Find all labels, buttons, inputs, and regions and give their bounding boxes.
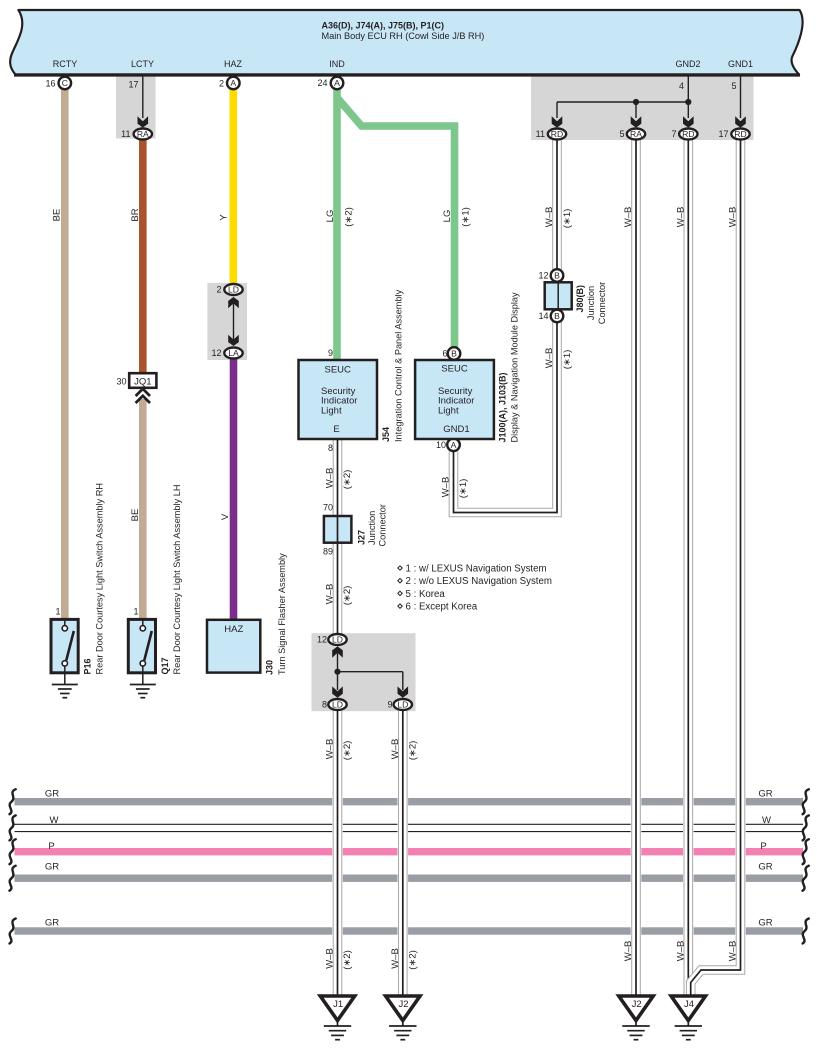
component P16 Rear Door Courtesy Light Switch Assembly RH xyxy=(51,619,78,684)
svg-text:Light: Light xyxy=(438,405,459,416)
wire W-B 5 RA to ground J2 xyxy=(631,140,641,996)
svg-text:GND2: GND2 xyxy=(675,59,700,69)
connector circle C pin 16 xyxy=(59,77,72,90)
svg-text:W–B: W–B xyxy=(390,948,401,969)
svg-text:B: B xyxy=(554,271,560,281)
svg-text:W: W xyxy=(762,815,771,826)
svg-text:1: 1 xyxy=(55,607,60,617)
ground P16 xyxy=(52,685,78,698)
svg-text:Y: Y xyxy=(219,214,230,221)
harness band GR 1 xyxy=(15,798,804,805)
svg-text:(∗2): (∗2) xyxy=(342,470,353,490)
svg-text:Connector: Connector xyxy=(597,282,607,324)
svg-text:SEUC: SEUC xyxy=(441,364,468,375)
connector oval LD pin 9 xyxy=(394,699,412,710)
svg-text:12: 12 xyxy=(538,271,548,281)
svg-text:6: 6 xyxy=(442,349,447,359)
svg-text:Turn Signal Flasher Assembly: Turn Signal Flasher Assembly xyxy=(277,553,287,675)
component J27 junction connector xyxy=(324,516,352,543)
label J54 xyxy=(381,427,391,442)
svg-text:11: 11 xyxy=(121,129,130,139)
svg-text:RCTY: RCTY xyxy=(53,59,78,69)
connector oval RD pin 17 xyxy=(731,129,749,140)
wire W-B 11 RD through J80 down and left up to J100 pin 10 xyxy=(454,140,558,513)
svg-text:B: B xyxy=(451,349,457,359)
svg-text:GR: GR xyxy=(758,861,772,872)
svg-text:5: 5 xyxy=(731,81,736,91)
wire BE beige JQ1 to Q17 xyxy=(139,399,147,620)
svg-text:J1: J1 xyxy=(333,999,343,1010)
wire Y yellow HAZ to 2 LD xyxy=(230,90,238,284)
ground triangle J2 left xyxy=(386,996,420,1040)
wire stub to 7 RD xyxy=(687,102,689,118)
connector oval LD pin 12 splice xyxy=(328,634,346,645)
wire BE beige RCTY to P16 xyxy=(61,90,69,621)
svg-text:GR: GR xyxy=(45,788,59,799)
svg-text:Light: Light xyxy=(321,405,342,416)
svg-text:14: 14 xyxy=(538,311,548,321)
svg-text:BE: BE xyxy=(52,209,63,222)
svg-text:Rear Door Courtesy Light Switc: Rear Door Courtesy Light Switch Assembly… xyxy=(172,485,182,675)
svg-text:P16: P16 xyxy=(83,658,93,674)
shade box LCTY relay block xyxy=(116,75,156,139)
svg-text:(∗1): (∗1) xyxy=(562,209,573,229)
connector circle A pin 24 IND xyxy=(331,77,344,90)
wire label W-B bottom J4 xyxy=(675,941,686,962)
svg-text:2: 2 xyxy=(219,78,224,88)
svg-text:A: A xyxy=(451,440,457,450)
connector circle A pin 10 J100 xyxy=(447,439,460,452)
svg-text:2: 2 xyxy=(216,285,221,295)
svg-text:(∗1): (∗1) xyxy=(460,207,471,227)
wire label W-B 17RD xyxy=(728,207,739,228)
svg-text:J2: J2 xyxy=(398,999,408,1010)
wire label BE 2 xyxy=(130,509,141,522)
svg-text:W–B: W–B xyxy=(623,941,634,962)
svg-text:W–B: W–B xyxy=(544,348,555,369)
wire label W-B 7RD xyxy=(675,207,686,228)
wire W-B 17 RD joining ground J4 xyxy=(691,140,741,996)
svg-text:HAZ: HAZ xyxy=(224,59,243,69)
wire GND1 lead xyxy=(740,76,742,118)
svg-text:RA: RA xyxy=(137,129,149,139)
svg-text:8: 8 xyxy=(328,443,333,453)
svg-text:J100(A), J103(B): J100(A), J103(B) xyxy=(498,372,508,442)
svg-text:16: 16 xyxy=(45,78,55,88)
svg-text:GR: GR xyxy=(45,917,59,928)
svg-text:Main Body ECU RH (Cowl Side J/: Main Body ECU RH (Cowl Side J/B RH) xyxy=(322,31,485,41)
shade box LD splice block xyxy=(312,633,416,711)
svg-text:RD: RD xyxy=(682,129,694,139)
wire label W-B 11RD (*1) xyxy=(544,207,555,228)
svg-text:(∗1): (∗1) xyxy=(562,350,573,370)
wire W-B 9 LD to ground J2 left xyxy=(398,711,408,996)
wire label W-B bottom J2 left (*2) xyxy=(390,948,401,969)
svg-text:4: 4 xyxy=(679,81,684,91)
wire label W-B bottom 17RD xyxy=(728,941,739,962)
svg-text:E: E xyxy=(333,424,339,435)
svg-text:Q17: Q17 xyxy=(160,657,170,674)
svg-text:BR: BR xyxy=(130,208,141,221)
svg-text:W–B: W–B xyxy=(325,468,336,489)
wire stub to 5 RA xyxy=(635,102,637,118)
svg-text:Junction: Junction xyxy=(586,286,596,320)
svg-text:J30: J30 xyxy=(265,660,275,675)
svg-text:10: 10 xyxy=(436,440,446,450)
svg-text:(∗2): (∗2) xyxy=(342,950,353,970)
label J100(A), J103(B) xyxy=(498,372,508,442)
wire LG green branch IND to J100 pin 6 xyxy=(337,98,455,348)
svg-text:LG: LG xyxy=(325,210,336,223)
component J80(B) junction connector xyxy=(545,282,572,309)
component J100(A), J103(B) Display & Navigation Module Display xyxy=(415,360,494,439)
wire BR brown LCTY to JQ1 xyxy=(139,140,147,374)
svg-text:5 : Korea: 5 : Korea xyxy=(406,589,446,600)
wire label W-B below J27 (*2) xyxy=(325,584,336,605)
svg-text:24: 24 xyxy=(317,78,327,88)
svg-text:W–B: W–B xyxy=(728,941,739,962)
svg-text:P: P xyxy=(760,841,766,852)
harness band GR 2 xyxy=(15,875,804,882)
svg-text:Connector: Connector xyxy=(378,504,388,546)
connector oval LD pin 2 xyxy=(224,284,242,295)
ECU band bottom line xyxy=(14,73,800,76)
svg-text:W–B: W–B xyxy=(325,948,336,969)
svg-text:W–B: W–B xyxy=(325,584,336,605)
svg-text:8: 8 xyxy=(322,700,327,710)
svg-text:C: C xyxy=(62,78,68,88)
connector circle A pin 2 HAZ xyxy=(227,77,240,90)
svg-text:SEUC: SEUC xyxy=(324,365,351,376)
wire label LG (*1) xyxy=(442,210,453,223)
svg-text:11: 11 xyxy=(536,129,545,139)
connector circle B pin 6 J100 xyxy=(448,347,461,360)
svg-text:J54: J54 xyxy=(381,427,391,442)
svg-text:A: A xyxy=(334,78,340,88)
wire label W-B below J54 (*2) xyxy=(325,468,336,489)
wire GND2 lead xyxy=(687,76,689,102)
note legend xyxy=(398,564,552,613)
svg-text:J2: J2 xyxy=(632,999,642,1010)
wire pin 17 LCTY lead xyxy=(142,76,144,118)
svg-text:Rear Door Courtesy Light Switc: Rear Door Courtesy Light Switch Assembly… xyxy=(95,483,105,674)
wire label BR xyxy=(130,208,141,221)
svg-text:W–B: W–B xyxy=(728,207,739,228)
svg-text:RA: RA xyxy=(630,129,642,139)
component J54 Integration Control & Panel Assembly xyxy=(299,360,378,439)
svg-text:LG: LG xyxy=(442,210,453,223)
svg-text:P: P xyxy=(48,841,54,852)
wire label W-B 5RA xyxy=(623,207,634,228)
wire label W-B below 9 LD (*2) xyxy=(390,739,401,760)
svg-text:RD: RD xyxy=(551,129,563,139)
svg-text:W–B: W–B xyxy=(675,207,686,228)
svg-text:HAZ: HAZ xyxy=(224,624,243,635)
svg-text:2 : w/o LEXUS Navigation Syste: 2 : w/o LEXUS Navigation System xyxy=(406,576,552,587)
svg-text:30: 30 xyxy=(116,376,126,386)
svg-text:W–B: W–B xyxy=(390,739,401,760)
svg-text:9: 9 xyxy=(387,700,392,710)
svg-text:W–B: W–B xyxy=(623,207,634,228)
svg-text:70: 70 xyxy=(323,503,333,513)
wire stub to 11 RD xyxy=(556,102,558,118)
component J30 Turn Signal Flasher Assembly xyxy=(207,620,260,673)
junction node on GND bus xyxy=(633,99,639,105)
component Q17 Rear Door Courtesy Light Switch Assembly LH xyxy=(128,619,155,684)
svg-text:9: 9 xyxy=(328,348,333,358)
label J30 xyxy=(265,660,275,675)
connector circle B pin 14 J80 xyxy=(551,310,564,323)
wire W-B J54 pin 8 to 12 LD through J27 xyxy=(333,439,343,634)
component JQ1 junction relay xyxy=(129,373,156,388)
svg-text:GR: GR xyxy=(45,861,59,872)
svg-text:17: 17 xyxy=(128,80,138,90)
svg-text:W–B: W–B xyxy=(544,207,555,228)
harness band P xyxy=(15,848,804,855)
connector oval LA pin 12 xyxy=(224,348,242,359)
svg-text:12: 12 xyxy=(317,635,327,645)
svg-text:LD: LD xyxy=(332,635,343,645)
svg-text:12: 12 xyxy=(211,348,221,358)
wire label W-B below J100 (*1) xyxy=(441,477,452,498)
svg-text:LCTY: LCTY xyxy=(131,59,154,69)
connector oval RD pin 11 xyxy=(548,129,566,140)
svg-text:LD: LD xyxy=(228,285,239,295)
svg-text:1: 1 xyxy=(133,607,138,617)
wire label W-B below 8 LD (*2) xyxy=(325,739,336,760)
ground triangle J1 xyxy=(320,996,354,1040)
ground Q17 xyxy=(130,685,156,698)
connector oval RA pin 11 xyxy=(134,129,152,140)
svg-text:GND1: GND1 xyxy=(443,424,469,435)
svg-text:GR: GR xyxy=(758,917,772,928)
svg-text:Display & Navigation Module Di: Display & Navigation Module Display xyxy=(510,292,520,443)
connector oval RD pin 7 xyxy=(679,129,697,140)
ground triangle J4 xyxy=(671,996,705,1040)
svg-text:RD: RD xyxy=(734,129,746,139)
svg-text:W–B: W–B xyxy=(441,477,452,498)
svg-text:LD: LD xyxy=(332,700,343,710)
svg-text:(∗1): (∗1) xyxy=(458,479,469,499)
svg-text:(∗2): (∗2) xyxy=(343,207,354,227)
junction node GND2 on bus xyxy=(685,99,691,105)
junction node splice xyxy=(334,669,340,675)
svg-text:A: A xyxy=(230,78,236,88)
connector circle B pin 12 J80 xyxy=(551,269,564,282)
wire label W-B bottom J1 (*2) xyxy=(325,948,336,969)
wire label W-B below J80 (*1) xyxy=(544,348,555,369)
wire GND bus horizontal xyxy=(557,101,688,103)
svg-text:B: B xyxy=(554,311,560,321)
harness band GR 3 xyxy=(15,927,804,934)
label J80(B) xyxy=(575,285,585,313)
svg-text:BE: BE xyxy=(130,509,141,522)
svg-text:J80(B): J80(B) xyxy=(575,285,585,313)
svg-text:(∗2): (∗2) xyxy=(407,950,418,970)
svg-text:89: 89 xyxy=(323,547,333,557)
ground triangle J2 right xyxy=(619,996,653,1040)
svg-text:W–B: W–B xyxy=(325,739,336,760)
svg-text:J27: J27 xyxy=(357,530,367,545)
connector pair arrows HAZ 2 LD to 12 LA xyxy=(233,303,235,340)
wire label BE xyxy=(52,209,63,222)
svg-text:W–B: W–B xyxy=(675,941,686,962)
shade box GND relay block xyxy=(531,75,754,141)
svg-text:1 : w/ LEXUS Navigation System: 1 : w/ LEXUS Navigation System xyxy=(406,564,547,575)
svg-text:5: 5 xyxy=(619,129,624,139)
svg-text:6 : Except Korea: 6 : Except Korea xyxy=(406,602,478,613)
splice arrows 12 LD to 8 LD and 9 LD xyxy=(337,652,339,690)
svg-text:(∗2): (∗2) xyxy=(342,741,353,761)
wire label Y xyxy=(219,214,230,221)
wire label W-B bottom J2 right xyxy=(623,941,634,962)
wire LG green IND to J54 pin 9 xyxy=(333,90,341,361)
connector oval RA pin 5 xyxy=(627,129,645,140)
wire W-B 8 LD to ground J1 xyxy=(333,711,343,996)
svg-text:JQ1: JQ1 xyxy=(134,376,151,387)
wire W-B 7 RD to ground J4 xyxy=(683,140,693,996)
harness band W xyxy=(15,824,804,831)
label Q17 xyxy=(160,657,170,674)
svg-text:GR: GR xyxy=(758,788,772,799)
svg-text:Junction: Junction xyxy=(367,511,377,545)
svg-text:GND1: GND1 xyxy=(728,59,753,69)
svg-text:J4: J4 xyxy=(684,999,694,1010)
band end squiggles left xyxy=(10,789,16,943)
svg-text:17: 17 xyxy=(718,129,728,139)
wire label V xyxy=(220,513,231,520)
svg-text:7: 7 xyxy=(671,129,676,139)
label J27 xyxy=(357,530,367,545)
svg-text:V: V xyxy=(220,513,231,520)
svg-text:Integration Control & Panel As: Integration Control & Panel Assembly xyxy=(394,289,404,442)
svg-text:(∗2): (∗2) xyxy=(407,741,418,761)
svg-text:LD: LD xyxy=(397,700,408,710)
svg-text:(∗2): (∗2) xyxy=(342,586,353,606)
svg-text:LA: LA xyxy=(228,348,239,358)
svg-text:IND: IND xyxy=(329,59,345,69)
ECU A36(D), J74(A), J75(B), P1(C) Main Body ECU RH band xyxy=(10,10,802,75)
svg-text:W: W xyxy=(50,815,59,826)
wire V violet 12 LA to J30 xyxy=(230,359,238,621)
shade box HAZ connector pair xyxy=(207,283,247,360)
band end squiggles right xyxy=(803,789,809,943)
connector oval LD pin 8 xyxy=(328,699,346,710)
crossover chevrons under JQ1 xyxy=(136,389,150,396)
label P16 xyxy=(83,658,93,674)
wire label LG (*2) xyxy=(325,210,336,223)
svg-text:A36(D), J74(A), J75(B), P1(C): A36(D), J74(A), J75(B), P1(C) xyxy=(322,20,445,30)
